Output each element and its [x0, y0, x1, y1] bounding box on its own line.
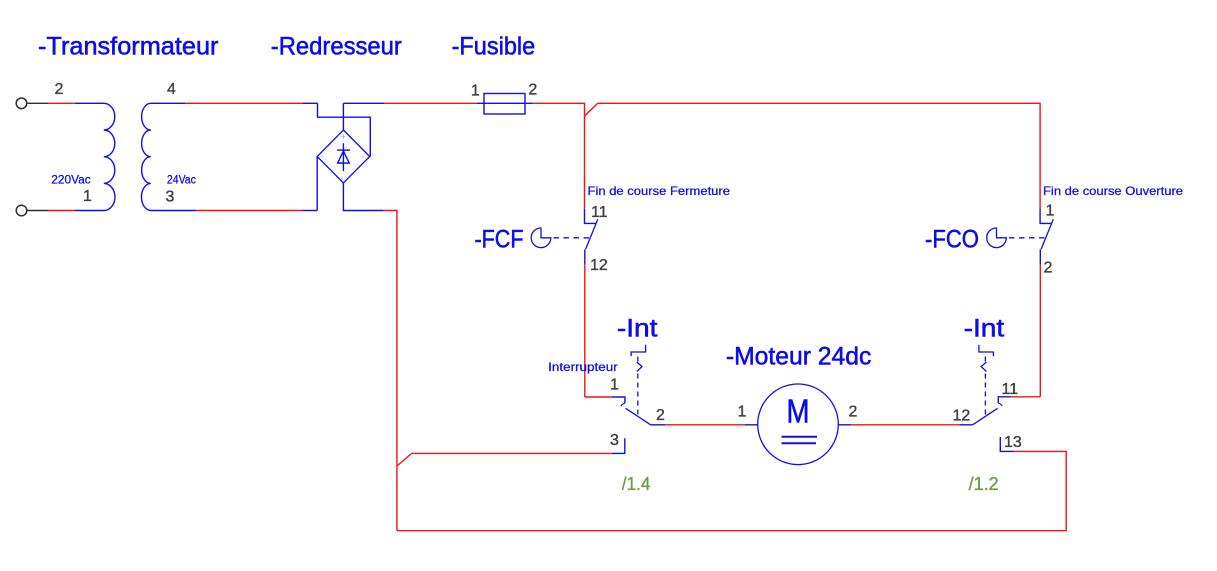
FCF actuator dashed link — [554, 237, 590, 239]
Int blade — [626, 408, 651, 425]
svg-text:24Vac: 24Vac — [167, 175, 196, 187]
wire primary pin 2 lead (red segment) — [49, 102, 75, 104]
wire primary pin 1 lead (black segment) — [27, 210, 49, 212]
Int terminal 2 stub (blue) — [651, 424, 666, 426]
svg-text:13: 13 — [1004, 434, 1022, 451]
motor DC bars — [782, 436, 818, 438]
Int manual actuator bracket — [631, 345, 646, 356]
svg-text:Interrupteur: Interrupteur — [548, 360, 618, 374]
FCF terminal 12 stub — [584, 249, 586, 264]
wire bridge AC1 jog — [318, 103, 371, 156]
svg-text:-Int: -Int — [617, 315, 658, 343]
svg-text:-Transformateur: -Transformateur — [38, 33, 219, 61]
wire through fuse (blue) — [477, 102, 533, 104]
wire branch to Int terminal 3 (red) — [412, 452, 612, 454]
wire bridge AC2 riser — [316, 157, 318, 211]
svg-text:1: 1 — [610, 376, 619, 393]
svg-text:2: 2 — [849, 404, 858, 421]
motor terminal 2 stub (blue) — [838, 424, 851, 426]
Int linkage dashes upper — [637, 357, 639, 363]
Int2 linkage dashes upper — [984, 357, 986, 363]
wire bridge DC+ riser — [342, 103, 344, 130]
motor terminal 1 stub (blue) — [745, 424, 758, 426]
wire DC- (red) — [384, 211, 397, 531]
wire FCF to Int terminal 1 (red) — [585, 396, 612, 398]
FCF terminal 11 stub — [585, 209, 597, 224]
svg-text:1: 1 — [1046, 203, 1055, 220]
FCO terminal 1 stub — [1040, 209, 1052, 224]
Int2 manual actuator bracket — [979, 345, 994, 356]
svg-text:12: 12 — [590, 257, 608, 274]
Int pivot hook — [621, 403, 625, 406]
junction knee at DC- branch — [397, 453, 412, 466]
svg-text:/1.4: /1.4 — [622, 474, 651, 494]
wire bridge DC- drop — [343, 183, 383, 211]
motor M circle — [758, 384, 839, 465]
svg-text:1: 1 — [738, 404, 747, 421]
svg-text:-: - — [362, 152, 365, 162]
svg-text:-FCF: -FCF — [475, 226, 524, 254]
wire motor to Int2 (red) — [851, 424, 959, 426]
svg-text:1: 1 — [83, 188, 92, 205]
wire DC+ to fuse (red) — [384, 102, 477, 104]
svg-text:/1.2: /1.2 — [969, 474, 999, 494]
svg-text:+: + — [341, 132, 346, 142]
svg-text:-: - — [341, 173, 344, 183]
svg-text:Fin de course Fermeture: Fin de course Fermeture — [588, 184, 731, 198]
wire Int2 to FCO (red) — [1011, 396, 1040, 398]
wire DC+ to fuse (blue) — [343, 102, 384, 104]
svg-text:Fin de course Ouverture: Fin de course Ouverture — [1043, 184, 1183, 198]
Int2 linkage chevron — [981, 362, 986, 372]
Int terminal 3 stub (blue) — [612, 438, 625, 453]
wire FCO to Int2 (red) — [1039, 265, 1041, 397]
svg-text:M: M — [787, 392, 810, 429]
svg-text:-Redresseur: -Redresseur — [271, 33, 402, 61]
bridge rectifier diamond — [317, 130, 370, 183]
Int2 terminal 12 stub (blue) — [959, 424, 972, 426]
bridge polarity marks — [321, 132, 365, 183]
terminal circle primary pin 2 — [16, 98, 27, 109]
wire FCF to Int (red) — [584, 265, 586, 397]
FCO actuator dashed link — [1009, 237, 1045, 239]
Int2 blade — [973, 408, 998, 425]
bottom rail (red) — [397, 451, 1066, 530]
transformer T secondary winding — [141, 103, 196, 210]
svg-text:2: 2 — [55, 81, 64, 98]
FCF cam actuator symbol — [531, 228, 551, 248]
svg-text:11: 11 — [1002, 381, 1019, 398]
FCO terminal 2 stub — [1039, 249, 1041, 264]
wire Int to motor (red) — [665, 424, 745, 426]
wire secondary pin 3 to bridge (red) — [196, 210, 302, 212]
svg-text:2: 2 — [1044, 260, 1053, 277]
Int terminal 1 stub (blue) — [612, 397, 625, 403]
svg-text:-: - — [321, 152, 324, 162]
terminal circle primary pin 1 — [16, 205, 27, 216]
svg-text:-Int: -Int — [964, 315, 1005, 343]
wire top rail to FCO (red) — [598, 103, 1041, 209]
Int2 pivot hook — [998, 403, 1002, 406]
svg-text:11: 11 — [591, 204, 608, 221]
FCF contact blade — [586, 219, 598, 249]
Int linkage chevron — [637, 362, 642, 372]
transformer T primary winding — [75, 103, 115, 210]
wire fuse to junction (red) — [533, 103, 585, 209]
svg-text:-Fusible: -Fusible — [452, 33, 536, 61]
wire primary pin 2 lead (black segment) — [27, 102, 49, 104]
FCO cam actuator symbol — [987, 228, 1007, 248]
svg-text:-Moteur 24dc: -Moteur 24dc — [726, 342, 871, 370]
wire primary pin 1 lead (red segment) — [49, 210, 75, 212]
Int2 terminal 13 stub (blue) — [1000, 437, 1014, 451]
svg-text:2: 2 — [656, 407, 665, 424]
Int linkage dashes lower — [637, 374, 639, 417]
junction knee at fuse output — [585, 103, 598, 116]
Int2 linkage dashes lower — [984, 374, 986, 417]
bridge diode symbol — [337, 143, 350, 171]
wire secondary pin 3 to bridge (blue) — [302, 210, 317, 212]
wire secondary pin 4 to bridge (blue) — [303, 102, 318, 104]
wire secondary pin 4 to bridge (red) — [185, 102, 303, 104]
FCO contact blade — [1041, 219, 1053, 249]
svg-text:1: 1 — [471, 83, 480, 100]
svg-text:3: 3 — [166, 189, 175, 206]
svg-text:3: 3 — [610, 432, 619, 449]
svg-text:4: 4 — [167, 81, 176, 98]
svg-text:220Vac: 220Vac — [51, 175, 91, 187]
fuse F body — [484, 94, 525, 115]
svg-text:2: 2 — [528, 82, 537, 99]
svg-text:-FCO: -FCO — [925, 226, 979, 254]
svg-text:12: 12 — [953, 408, 971, 425]
Int2 terminal 11 stub (blue) — [998, 397, 1011, 403]
